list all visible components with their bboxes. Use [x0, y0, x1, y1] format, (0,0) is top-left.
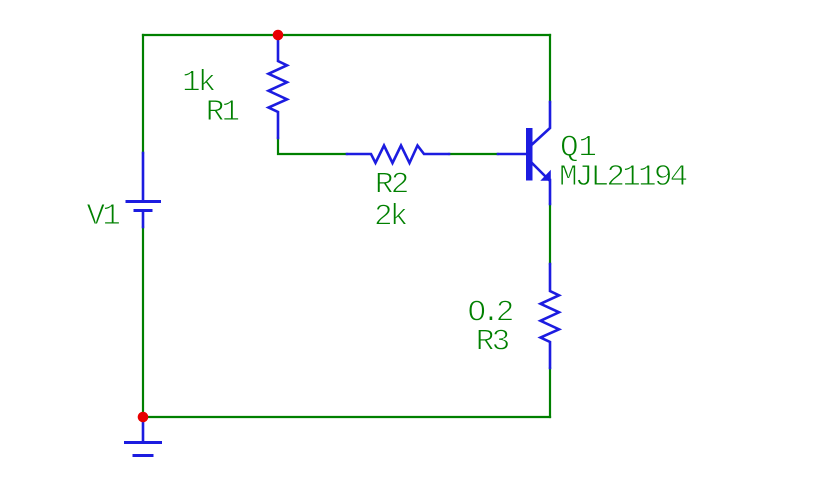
- ground symbol: [126, 417, 161, 456]
- node junction dot bottom (ground): [138, 412, 149, 423]
- wire right upper (top to Q1 collector): [549, 35, 551, 102]
- wire R1 bottom to R2 left: [278, 138, 347, 154]
- transistor Q1 base lead: [498, 153, 526, 156]
- node junction dot top (R1/top rail): [273, 30, 284, 41]
- svg-text:R1: R1: [206, 95, 240, 130]
- wire left lower (V1- to ground node): [142, 227, 144, 417]
- wire top (node N001): [143, 34, 550, 36]
- svg-text:MJL21194: MJL21194: [559, 160, 688, 195]
- transistor Q1 emitter lead with arrow: [532, 163, 550, 204]
- svg-text:R3: R3: [476, 325, 509, 360]
- voltage source V1 (battery): [127, 153, 160, 227]
- wire bottom (ground net): [143, 416, 550, 418]
- svg-text:R2: R2: [375, 167, 408, 202]
- transistor Q1 collector lead: [532, 102, 550, 145]
- transistor Q1 body bar: [526, 128, 533, 181]
- wire R3 bottom to bottom rail: [549, 368, 551, 417]
- svg-text:V1: V1: [87, 199, 121, 234]
- wire Q1 emitter to R3 top: [549, 204, 551, 264]
- svg-text:2k: 2k: [374, 200, 408, 235]
- wire left upper (V1+ to top): [142, 35, 144, 153]
- resistor R1 (vertical): [269, 35, 288, 138]
- wire R2 right to Q1 base: [449, 153, 498, 155]
- resistor R3 (vertical): [541, 264, 560, 368]
- resistor R2 (horizontal): [347, 146, 449, 164]
